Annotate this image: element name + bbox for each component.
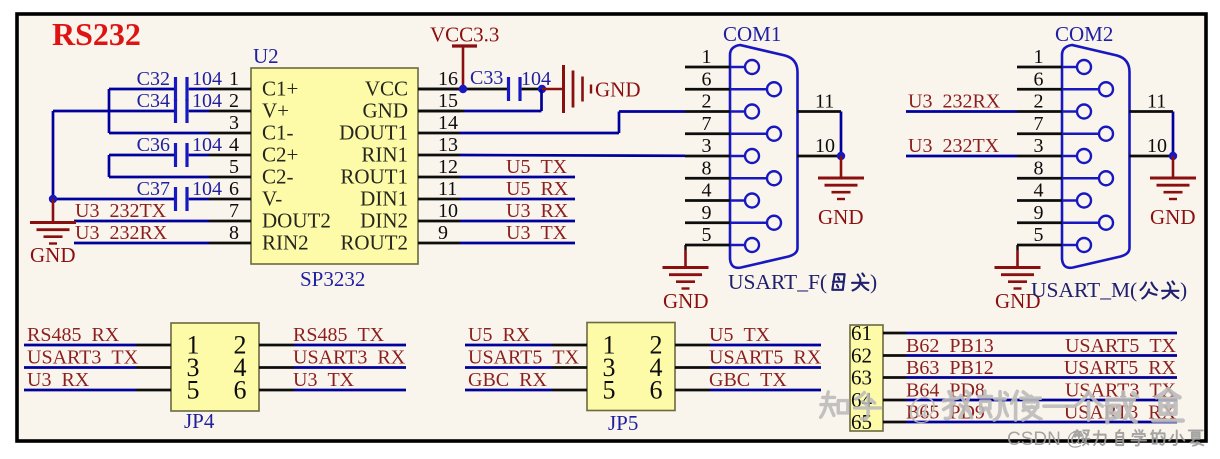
- svg-text:RIN2: RIN2: [262, 231, 309, 255]
- svg-text:15: 15: [438, 90, 458, 112]
- svg-text:VCC3.3: VCC3.3: [430, 23, 499, 47]
- svg-text:@: @: [908, 389, 937, 424]
- junction GND rail node: [49, 195, 57, 203]
- svg-text:104: 104: [192, 134, 222, 156]
- connector COM1 pin holes: [730, 60, 781, 252]
- wire JP5 pin5 net GBC RX: [465, 389, 587, 392]
- wire JP4 pin5 net U3 RX: [24, 389, 171, 392]
- svg-text:V+: V+: [262, 99, 289, 123]
- svg-text:9: 9: [438, 222, 448, 244]
- svg-text:U3 232RX: U3 232RX: [908, 91, 1001, 113]
- svg-text:GND: GND: [818, 205, 864, 229]
- svg-text:DOUT1: DOUT1: [339, 121, 408, 145]
- svg-text:14: 14: [438, 112, 458, 134]
- svg-text:B62 PB13: B62 PB13: [906, 335, 994, 357]
- svg-text:RIN1: RIN1: [361, 143, 408, 167]
- svg-text:C1+: C1+: [262, 77, 298, 101]
- svg-text:USART_F(: USART_F(: [728, 270, 827, 294]
- wire net C2+/C2- loop (C36 bracket): [109, 155, 209, 177]
- svg-text:U3 RX: U3 RX: [506, 200, 569, 222]
- U2 right pin numbers: [438, 68, 458, 244]
- svg-text:7: 7: [229, 200, 239, 222]
- ground symbol GND at COM1 pin5: [663, 245, 709, 313]
- svg-text:1: 1: [702, 46, 712, 68]
- ground symbol GND (rotated, at C33): [542, 65, 641, 113]
- svg-text:U3 TX: U3 TX: [506, 222, 568, 244]
- wire U3_232TX to U2 pin7: [74, 220, 209, 223]
- label USART_M(male): [1031, 278, 1187, 302]
- svg-text:U3 RX: U3 RX: [27, 369, 90, 391]
- COM2 shield pin 11: [1129, 91, 1173, 113]
- svg-text:11: 11: [815, 91, 834, 113]
- svg-text:10: 10: [815, 135, 835, 157]
- svg-text:3: 3: [702, 135, 712, 157]
- svg-text:USART3 TX: USART3 TX: [27, 347, 139, 369]
- wire strip pin 65: [883, 421, 1177, 424]
- svg-text:1: 1: [1034, 46, 1044, 68]
- connector COM1 shell: [730, 45, 798, 268]
- capacitor C34 value 104: [137, 90, 222, 123]
- svg-text:7: 7: [702, 113, 712, 135]
- connector JP5 body: [587, 323, 675, 436]
- wire JP5 pin2 net U5 TX: [675, 344, 821, 347]
- wire net V- (C37 to GND rail): [53, 198, 174, 201]
- svg-text:ROUT2: ROUT2: [340, 231, 408, 255]
- svg-text:2: 2: [229, 90, 239, 112]
- svg-text:GND: GND: [1150, 205, 1196, 229]
- svg-text:2: 2: [1034, 91, 1044, 113]
- svg-text:JP5: JP5: [608, 411, 638, 435]
- COM2 shield pin 10: [1129, 135, 1173, 157]
- capacitor C37 value 104: [137, 178, 222, 211]
- wire JP4 pin2 net RS485 TX: [259, 344, 406, 347]
- svg-text:104: 104: [192, 68, 222, 90]
- svg-text:104: 104: [192, 178, 222, 200]
- svg-text:12: 12: [438, 156, 458, 178]
- ground symbol GND at COM2 shield: [1150, 156, 1196, 229]
- op-amp U2 SP3232 transceiver body: [251, 44, 418, 291]
- svg-text:RS232: RS232: [52, 16, 141, 52]
- wire JP4 pin4 net USART3 RX: [259, 366, 406, 369]
- wire net U3_232RX to COM2 pin2: [906, 110, 1017, 113]
- svg-text:U5 RX: U5 RX: [468, 324, 531, 346]
- svg-text:4: 4: [1034, 180, 1044, 202]
- connector COM1 pin numbers: [702, 46, 712, 246]
- svg-text:8: 8: [702, 157, 712, 179]
- wire ROUT2 pin9 net U3_TX: [460, 242, 575, 245]
- svg-text:C32: C32: [137, 68, 170, 90]
- svg-text:11: 11: [1147, 91, 1166, 113]
- svg-text:U3 232TX: U3 232TX: [908, 135, 1000, 157]
- svg-text:SP3232: SP3232: [300, 267, 365, 291]
- svg-text:GND: GND: [363, 99, 409, 123]
- wire DIN1 pin11 net U5_RX: [460, 198, 575, 201]
- wire JP5 pin6 net GBC TX: [675, 389, 821, 392]
- capacitor C32 value 104: [137, 68, 222, 101]
- svg-text:3: 3: [229, 112, 239, 134]
- svg-text:C33: C33: [470, 67, 503, 89]
- svg-text:GND: GND: [30, 243, 76, 267]
- svg-text:DIN2: DIN2: [360, 209, 408, 233]
- watermark CSDN: [1007, 429, 1203, 450]
- wire DOUT1 pin14 to COM1 pin2: [460, 112, 685, 134]
- svg-text:U5 TX: U5 TX: [506, 156, 568, 178]
- ground symbol GND at COM1 shield: [818, 156, 864, 229]
- svg-text:4: 4: [229, 134, 239, 156]
- wire U3_232RX to U2 pin8: [74, 242, 209, 245]
- svg-text:COM2: COM2: [1055, 22, 1113, 46]
- svg-text:USART3 RX: USART3 RX: [293, 347, 406, 369]
- connector COM2 pin holes: [1062, 60, 1113, 252]
- wire JP5 pin1 net U5 RX: [465, 344, 587, 347]
- svg-text:RS485 TX: RS485 TX: [293, 324, 385, 346]
- svg-text:7: 7: [1034, 113, 1044, 135]
- wire RIN1 pin13 to COM1 pin3: [460, 154, 685, 158]
- svg-text:DIN1: DIN1: [360, 187, 408, 211]
- connector COM2 shell: [1062, 45, 1130, 268]
- svg-text:U5 RX: U5 RX: [506, 178, 569, 200]
- svg-text:GBC RX: GBC RX: [468, 369, 547, 391]
- svg-text:ROUT1: ROUT1: [340, 165, 408, 189]
- junction node C33/GND: [538, 85, 546, 93]
- svg-text:B63 PB12: B63 PB12: [906, 357, 994, 379]
- wire JP4 pin6 net U3 TX: [259, 389, 406, 392]
- svg-text:2: 2: [702, 91, 712, 113]
- svg-text:C34: C34: [137, 90, 170, 112]
- svg-text:COM1: COM1: [723, 22, 781, 46]
- svg-text:U5 TX: U5 TX: [709, 324, 771, 346]
- svg-text:61: 61: [851, 321, 872, 345]
- svg-text:104: 104: [521, 68, 551, 90]
- wire strip pin 61: [883, 332, 1177, 335]
- connector strip pins 61-65 body: [850, 321, 883, 434]
- wire ROUT1 pin12 net U5_TX: [460, 176, 575, 179]
- svg-text:8: 8: [229, 222, 239, 244]
- svg-text:13: 13: [438, 134, 458, 156]
- wire JP4 pin3 net USART3 TX: [24, 366, 171, 369]
- ground symbol GND (left rail): [30, 199, 76, 267]
- svg-text:C37: C37: [137, 178, 170, 200]
- watermark zhihu: [821, 389, 1183, 424]
- wire net C1+/C1- loop (C32 bracket): [109, 89, 209, 133]
- U2 left pin stubs 1-8: [209, 89, 251, 243]
- svg-text:9: 9: [1034, 202, 1044, 224]
- connector JP4 body: [171, 323, 259, 433]
- connector COM2 pin stubs: [1017, 67, 1062, 245]
- svg-text:5: 5: [229, 156, 239, 178]
- svg-text:): ): [1180, 278, 1187, 302]
- svg-text:3: 3: [1034, 135, 1044, 157]
- connector COM1 pin stubs: [685, 67, 730, 245]
- svg-text:10: 10: [438, 200, 458, 222]
- svg-text:GND: GND: [595, 78, 641, 102]
- svg-text:USART5 RX: USART5 RX: [709, 347, 822, 369]
- svg-text:DOUT2: DOUT2: [262, 209, 331, 233]
- svg-text:C2-: C2-: [262, 165, 294, 189]
- svg-text:JP4: JP4: [184, 409, 215, 433]
- svg-text:USART5 RX: USART5 RX: [1064, 357, 1177, 379]
- svg-text:5: 5: [187, 376, 200, 405]
- COM1 shield pin 10: [797, 135, 841, 157]
- svg-text:6: 6: [234, 376, 247, 405]
- svg-text:62: 62: [851, 344, 872, 368]
- svg-text:GBC TX: GBC TX: [709, 369, 787, 391]
- wire JP4 pin1 net RS485 RX: [24, 344, 171, 347]
- wire U2 pin16 to C33: [418, 88, 507, 91]
- wire pin15 up to C33: [418, 89, 542, 111]
- svg-text:1: 1: [229, 68, 239, 90]
- svg-text:11: 11: [438, 178, 457, 200]
- svg-text:C1-: C1-: [262, 121, 294, 145]
- svg-text:5: 5: [702, 224, 712, 246]
- svg-text:RS485 RX: RS485 RX: [27, 324, 120, 346]
- svg-text:USART_M(: USART_M(: [1031, 278, 1137, 302]
- svg-text:C36: C36: [137, 134, 170, 156]
- junction node VCC: [459, 85, 467, 93]
- label USART_F(mother): [728, 270, 877, 294]
- svg-text:4: 4: [702, 180, 712, 202]
- svg-text:6: 6: [1034, 68, 1044, 90]
- svg-text:6: 6: [650, 376, 663, 405]
- svg-text:U3 232TX: U3 232TX: [75, 200, 167, 222]
- COM1 shield pin 11: [797, 91, 841, 113]
- wire JP5 pin3 net USART5 TX: [465, 366, 587, 369]
- wire net U3_232TX to COM2 pin3: [906, 155, 1017, 158]
- wire net V+ (C34 to GND rail): [53, 111, 174, 199]
- wire strip pin 64: [883, 399, 1177, 402]
- U2 left pin numbers: [229, 68, 239, 244]
- wire COM2 shield to GND: [1169, 112, 1177, 161]
- svg-text:USART5 TX: USART5 TX: [468, 347, 580, 369]
- power symbol VCC3.3: [430, 23, 499, 90]
- svg-text:USART5 TX: USART5 TX: [1065, 335, 1177, 357]
- svg-text:63: 63: [851, 366, 872, 390]
- svg-text:104: 104: [192, 90, 222, 112]
- svg-text:6: 6: [229, 178, 239, 200]
- svg-text:8: 8: [1034, 157, 1044, 179]
- svg-text:VCC: VCC: [365, 77, 408, 101]
- svg-text:6: 6: [702, 68, 712, 90]
- svg-text:V-: V-: [262, 187, 282, 211]
- ground symbol GND at COM2 pin5: [995, 245, 1041, 313]
- svg-text:5: 5: [1034, 224, 1044, 246]
- svg-text:U3 TX: U3 TX: [293, 369, 355, 391]
- svg-text:U2: U2: [253, 44, 279, 68]
- svg-text:10: 10: [1147, 135, 1167, 157]
- svg-text:GND: GND: [663, 289, 709, 313]
- svg-text:9: 9: [702, 202, 712, 224]
- wire strip pin 62: [883, 354, 1177, 357]
- U2 right pin stubs 16-9: [418, 89, 460, 243]
- wire strip pin 63: [883, 376, 1177, 379]
- wire COM1 shield to GND: [837, 112, 845, 161]
- wire JP5 pin4 net USART5 RX: [675, 366, 821, 369]
- svg-text:16: 16: [438, 68, 458, 90]
- capacitor C33 value 104: [470, 67, 551, 101]
- wire DIN2 pin10 net U3_RX: [460, 220, 575, 223]
- capacitor C36 value 104: [137, 134, 222, 167]
- svg-text:): ): [870, 270, 877, 294]
- connector COM2 pin numbers: [1034, 46, 1044, 246]
- svg-text:U3 232RX: U3 232RX: [75, 222, 168, 244]
- svg-text:C2+: C2+: [262, 143, 298, 167]
- svg-text:5: 5: [603, 376, 616, 405]
